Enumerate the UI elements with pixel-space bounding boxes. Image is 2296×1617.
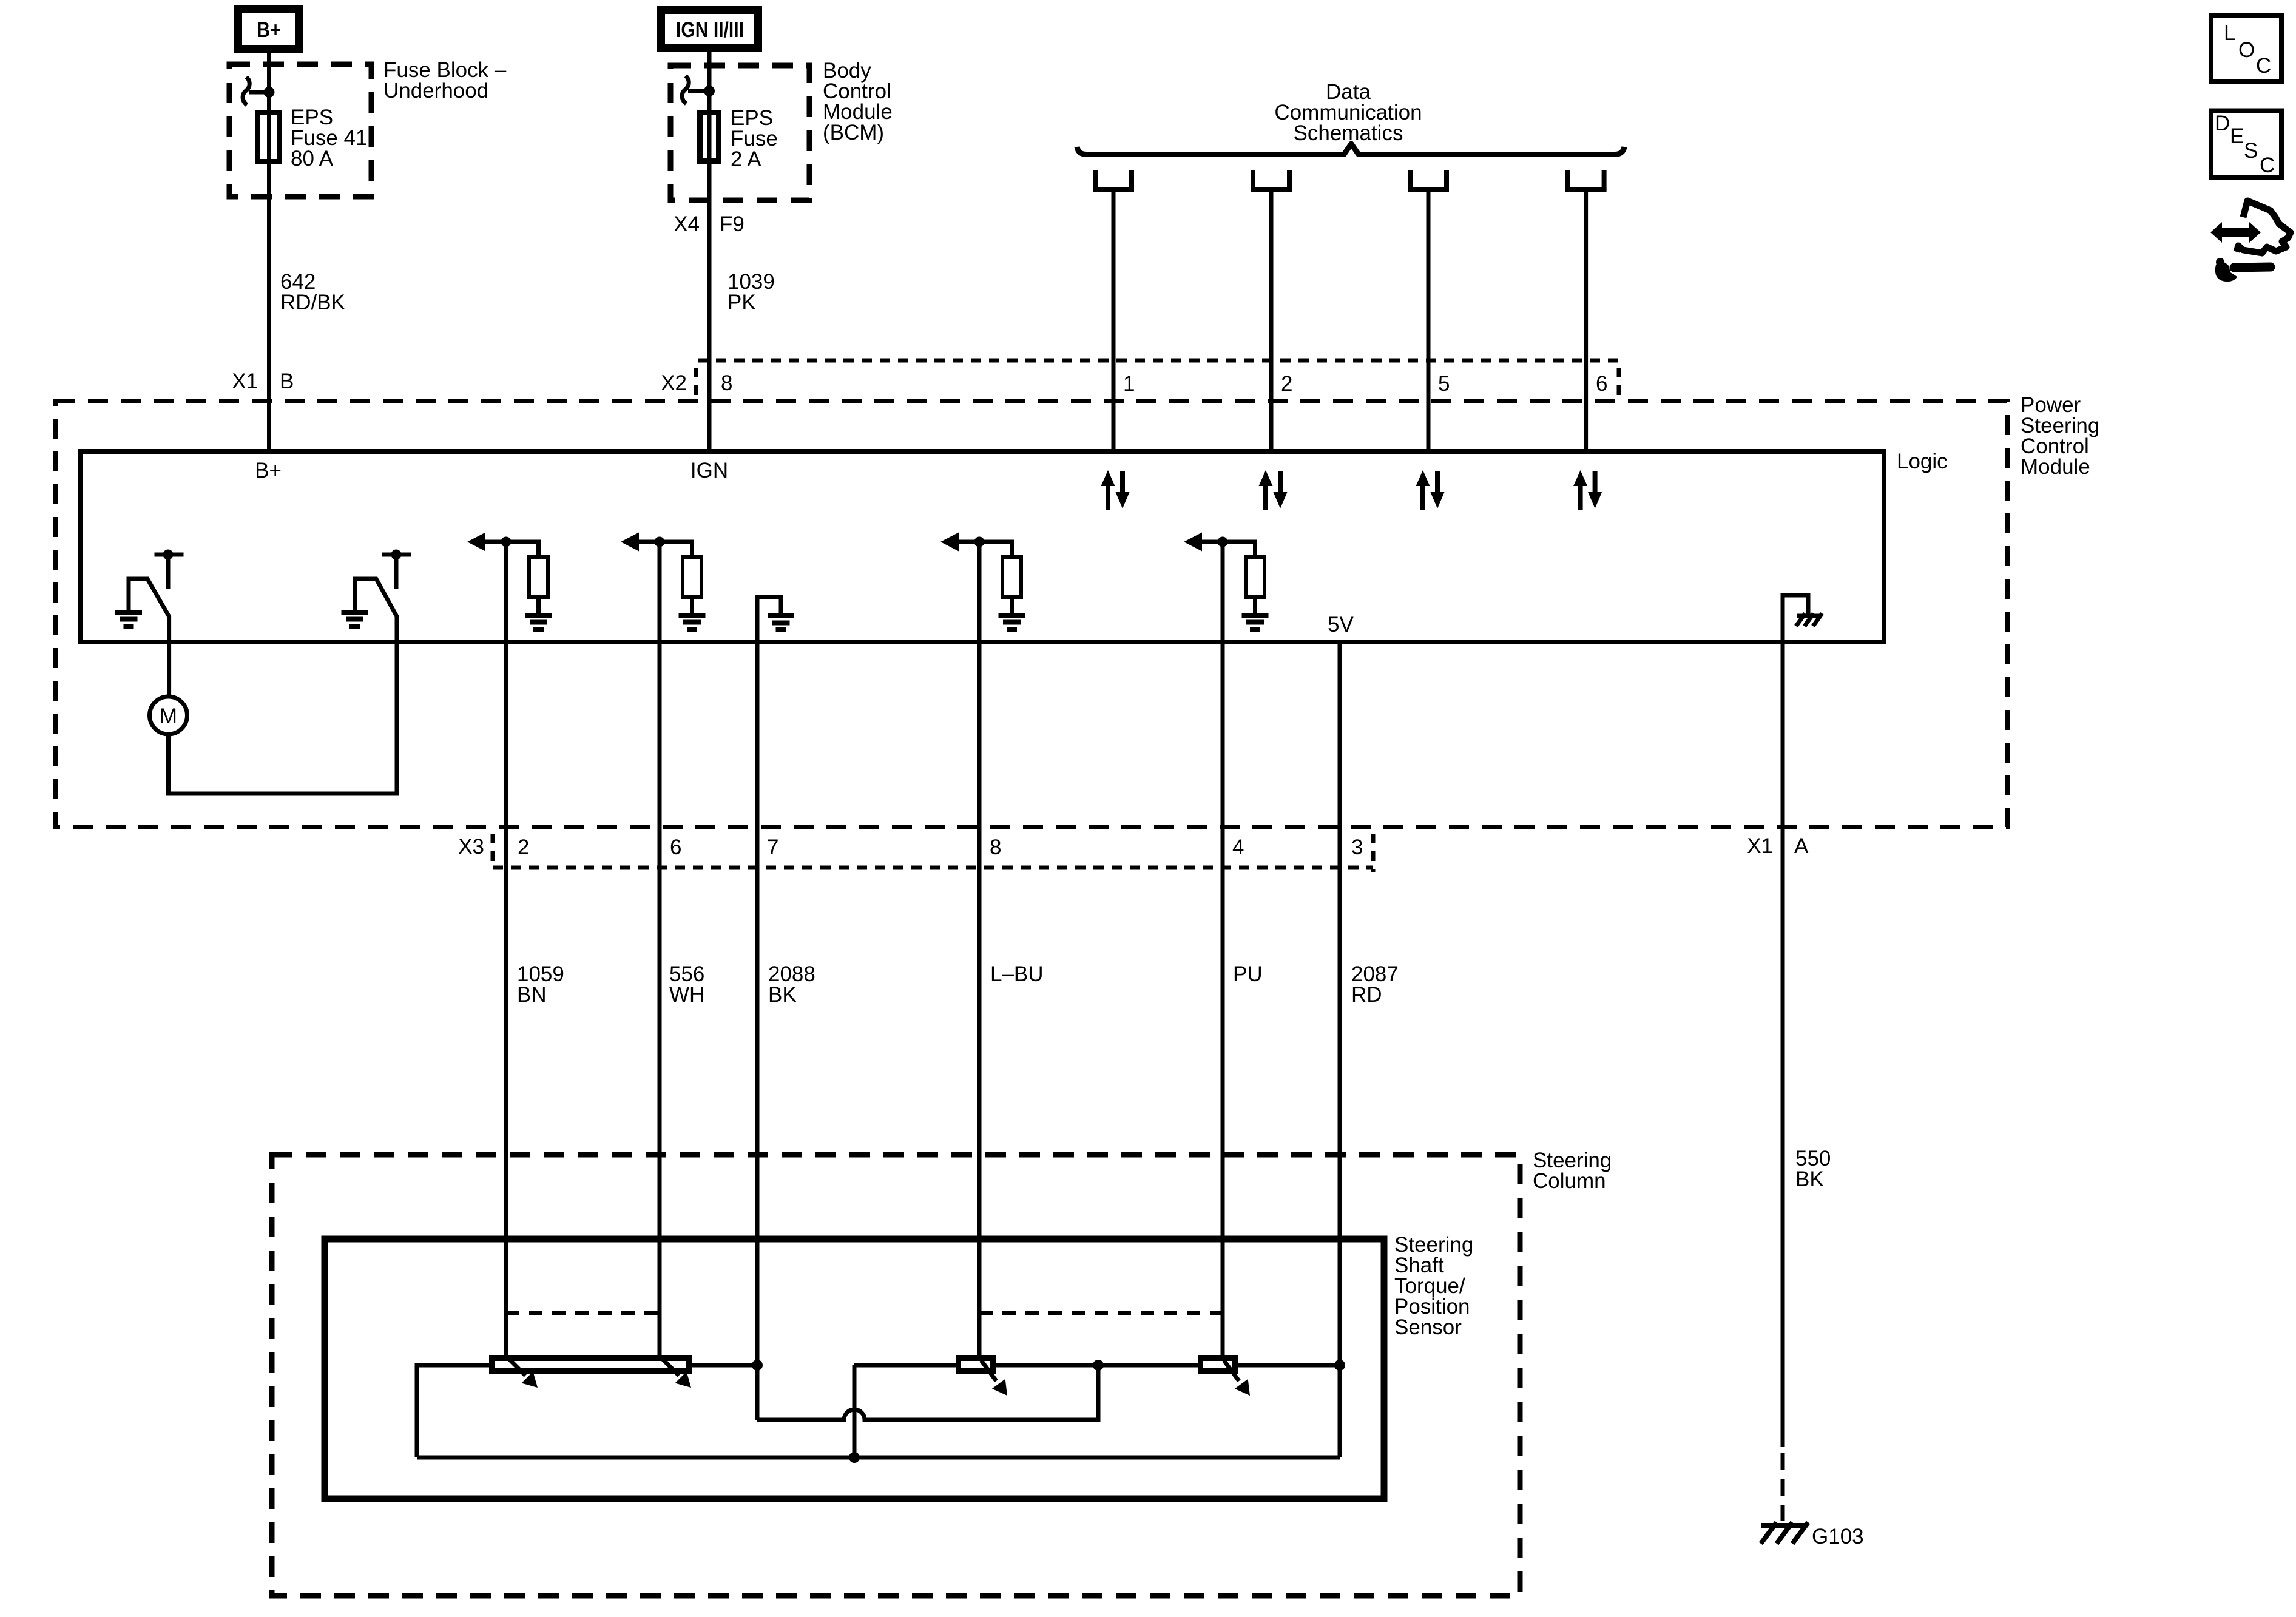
dashed tail of ground wire (1781, 1453, 1785, 1521)
connector serial data 3 (1408, 170, 1449, 190)
wiper arrow pin 8 (981, 1360, 1007, 1396)
label X1 pin A (1747, 834, 1809, 858)
svg-text:C: C (2260, 154, 2275, 177)
svg-text:F9: F9 (720, 212, 745, 236)
svg-text:L: L (2224, 21, 2235, 45)
X2 connector left separator (694, 368, 698, 396)
svg-text:3: 3 (1351, 836, 1363, 859)
svg-text:X3: X3 (458, 835, 484, 859)
connector clip at fuse block (243, 77, 269, 105)
svg-text:A: A (1794, 834, 1809, 858)
label X4 pin F9 (674, 212, 745, 236)
data wire 1 (1112, 190, 1116, 451)
wire riser mid pot feed (853, 1365, 857, 1457)
svg-text:5: 5 (1438, 372, 1450, 396)
connector serial data 1 (1093, 170, 1134, 190)
svg-text:G103: G103 (1812, 1525, 1864, 1548)
svg-text:B: B (280, 370, 294, 393)
svg-text:5V: 5V (1328, 613, 1354, 636)
label 556 WH (669, 962, 704, 1007)
resistor pull at pin 6 (683, 557, 701, 613)
svg-text:Column: Column (1533, 1169, 1606, 1193)
wiper arrow pin 2 (507, 1357, 538, 1388)
internal dashed link pins 8-4 (979, 1311, 1223, 1315)
connector serial data 4 (1565, 170, 1607, 190)
terminal B+ (238, 10, 300, 49)
connector serial data 2 (1251, 170, 1292, 190)
wiper arrow pin 4 (1224, 1360, 1250, 1396)
label 1059 BN (517, 962, 564, 1007)
X3 connector dotted boundary (493, 866, 1373, 870)
PSCM dashed box (55, 401, 2007, 827)
fuse block underhood dashed box (229, 64, 371, 197)
pin 8 signal arrow (940, 533, 1012, 643)
data wire 4 (1584, 190, 1588, 451)
wiper arrow pin 6 (660, 1357, 691, 1388)
brace for data communication (1077, 144, 1624, 155)
svg-text:Module: Module (2021, 455, 2090, 479)
wire torque pot left terminal (417, 1365, 489, 1457)
wire rail pot1 to dot (993, 1363, 1200, 1368)
bidirectional arrows data 3 (1416, 470, 1445, 510)
X2 connector dotted boundary (698, 359, 1619, 363)
steering column dashed box (272, 1155, 1520, 1596)
wire L-BU pin8 to sensor (977, 642, 982, 1355)
internal dashed link pins 2-6 (506, 1311, 660, 1315)
svg-text:2: 2 (518, 836, 529, 859)
wire 556 WH pin6 to sensor (658, 642, 662, 1355)
ground at pin 8 resistor (999, 615, 1025, 629)
svg-text:BK: BK (768, 983, 797, 1007)
label Power Steering Control Module (2021, 393, 2099, 479)
ground at switch 1 (115, 612, 142, 626)
svg-text:2 A: 2 A (731, 147, 761, 171)
label 1039 PK (728, 270, 775, 314)
junction dot rail pin3 (1334, 1360, 1345, 1371)
svg-text:80 A: 80 A (291, 147, 334, 170)
chassis ground symbol internal (1796, 613, 1822, 626)
svg-text:L–BU: L–BU (990, 962, 1044, 986)
svg-text:7: 7 (767, 836, 778, 859)
svg-text:PK: PK (728, 291, 756, 314)
junction dot at BCM (704, 86, 715, 96)
switch 1 blade and contact (129, 550, 184, 643)
fuse EPS Fuse 2 A (700, 113, 719, 161)
diagnostic icon arrow claw wrench (2210, 201, 2291, 282)
bidirectional arrows data 1 (1101, 470, 1130, 510)
LOC box (2211, 16, 2281, 82)
wire 550 BK ground lead (1781, 642, 1785, 1447)
bidirectional arrows data 4 (1573, 470, 1602, 510)
position potentiometer 2 body (1201, 1359, 1235, 1371)
svg-text:X1: X1 (232, 370, 258, 393)
connector clip at BCM (682, 76, 709, 104)
svg-text:1: 1 (1123, 372, 1135, 396)
label Body Control Module (BCM) (823, 59, 893, 144)
svg-text:6: 6 (670, 836, 681, 859)
X3 connector left separator (491, 834, 495, 862)
junction dot pin7 rail (752, 1360, 763, 1371)
X3 connector right separator (1371, 834, 1376, 872)
switch 2 blade and contact (355, 550, 411, 643)
junction dot line B mid (849, 1452, 860, 1463)
bidirectional arrows data 2 (1259, 470, 1288, 510)
svg-text:Underhood: Underhood (383, 79, 488, 103)
svg-text:D: D (2215, 112, 2230, 135)
svg-text:4: 4 (1232, 836, 1244, 859)
pin 2 signal arrow (467, 533, 539, 643)
wire PU pin4 to sensor (1221, 642, 1225, 1355)
pin 6 signal arrow (621, 533, 692, 643)
svg-text:PU: PU (1233, 962, 1263, 986)
label Steering Shaft Torque/Position Sensor (1394, 1233, 1473, 1339)
wire pin7 down and across line A with hop (757, 1365, 1098, 1420)
wire rail mid segment (854, 1363, 958, 1368)
label Data Communication Schematics (1274, 80, 1422, 145)
svg-text:IGN: IGN (690, 459, 728, 482)
X2 connector right separator (1617, 368, 1621, 396)
svg-text:8: 8 (990, 836, 1001, 859)
svg-text:(BCM): (BCM) (823, 121, 884, 144)
wire 2087 RD pin3 to sensor (1338, 642, 1342, 1457)
svg-text:Logic: Logic (1897, 450, 1948, 473)
wire 2088 BK pin7 to sensor (755, 642, 760, 1420)
svg-text:S: S (2244, 139, 2258, 163)
svg-text:8: 8 (721, 371, 732, 395)
svg-text:IGN II/III: IGN II/III (676, 18, 744, 42)
svg-text:RD/BK: RD/BK (280, 291, 345, 314)
motor M (150, 642, 187, 734)
svg-text:X2: X2 (661, 371, 687, 395)
fuse EPS Fuse 41 80 A (258, 113, 280, 162)
terminal IGN II/III (661, 10, 758, 49)
svg-text:BK: BK (1795, 1167, 1824, 1191)
svg-text:BN: BN (517, 983, 547, 1007)
svg-text:Sensor: Sensor (1394, 1315, 1462, 1339)
svg-text:B+: B+ (257, 18, 281, 42)
label Steering Column (1533, 1149, 1612, 1193)
wire 642 RD/BK from B+ to PSCM (267, 53, 271, 451)
pin 4 signal arrow (1184, 533, 1255, 643)
wire supply return line B (417, 1456, 1340, 1460)
ground at pin 4 resistor (1242, 615, 1269, 629)
svg-text:O: O (2238, 38, 2255, 62)
svg-text:2: 2 (1281, 372, 1292, 396)
label EPS Fuse 41 80 A (291, 106, 367, 170)
label X2 pin 8 (661, 371, 732, 395)
wire rail pot left to pin7 (692, 1363, 757, 1368)
junction dot at fuse block (264, 87, 275, 98)
logic box (80, 451, 1884, 642)
label 550 BK (1795, 1147, 1831, 1191)
ground at pin 7 (768, 616, 794, 630)
wire 1039 PK from IGN to PSCM (707, 52, 712, 451)
pin 7 internal ground (757, 597, 781, 643)
wire rail pot2 to pin3 (1235, 1363, 1340, 1368)
junction dot rail mid (1093, 1360, 1104, 1371)
svg-text:WH: WH (669, 983, 704, 1007)
DESC box (2211, 111, 2281, 178)
wire 1059 BN pin2 to sensor (504, 642, 508, 1355)
data wire 2 (1269, 190, 1274, 451)
svg-text:C: C (2256, 54, 2271, 78)
steering shaft torque position sensor box (325, 1239, 1384, 1499)
svg-text:X4: X4 (674, 212, 700, 236)
svg-text:X1: X1 (1747, 834, 1773, 858)
label 2088 BK (768, 962, 815, 1007)
label X1 pin B (232, 370, 294, 393)
chassis ground G103 (1761, 1522, 1808, 1544)
svg-text:Schematics: Schematics (1294, 121, 1403, 145)
internal chassis ground right (1783, 595, 1808, 642)
svg-text:RD: RD (1351, 983, 1382, 1007)
label 2087 RD (1351, 962, 1399, 1007)
svg-text:B+: B+ (255, 459, 282, 482)
ground at pin 2 resistor (525, 615, 552, 629)
svg-text:6: 6 (1596, 372, 1607, 396)
label Fuse Block - Underhood (383, 58, 507, 103)
torque potentiometer body (492, 1359, 689, 1371)
resistor pull at pin 8 (1002, 557, 1021, 613)
resistor pull at pin 2 (529, 557, 548, 613)
BCM dashed box (670, 66, 809, 200)
label EPS Fuse 2 A (731, 106, 778, 171)
svg-text:E: E (2230, 124, 2244, 148)
wire motor return loop (169, 642, 397, 794)
resistor pull at pin 4 (1246, 557, 1264, 613)
position potentiometer 1 body (959, 1359, 993, 1371)
data wire 3 (1427, 190, 1431, 451)
ground at pin 6 resistor (679, 615, 706, 629)
label 642 RD/BK (280, 270, 345, 314)
ground at switch 2 (342, 612, 368, 626)
svg-text:M: M (160, 704, 177, 728)
